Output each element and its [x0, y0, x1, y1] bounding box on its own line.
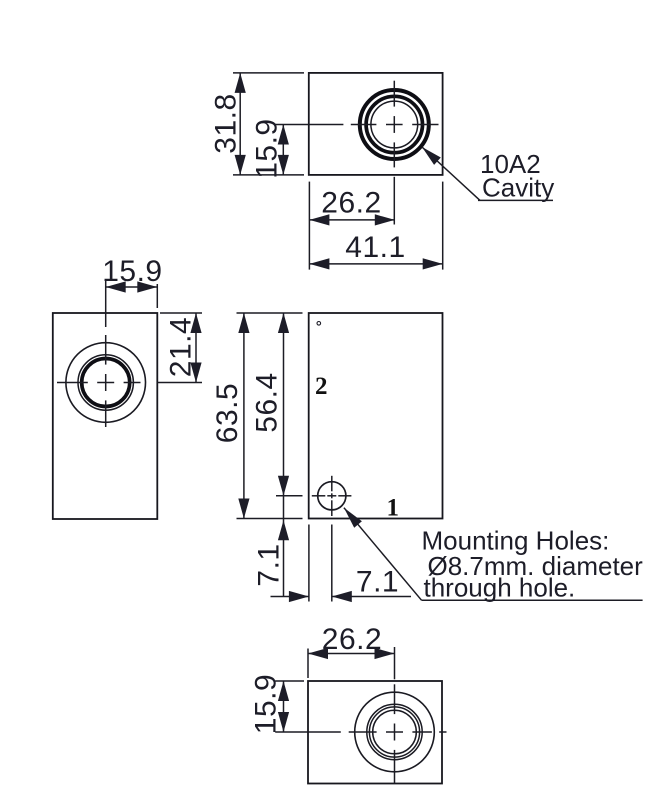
- dimension 15.9 (bottom view): [275, 681, 304, 732]
- left view vertical centerline: [105, 280, 107, 427]
- svg-text:56.4: 56.4: [250, 372, 283, 432]
- bottom view outline: [308, 681, 442, 784]
- left view chamfer thin circle: [78, 355, 133, 410]
- svg-text:2: 2: [315, 373, 328, 400]
- svg-text:7.1: 7.1: [253, 543, 286, 586]
- small orifice circle top-left: [317, 322, 321, 326]
- dimension 26.2 (bottom view): [308, 648, 395, 678]
- mounting hole circle: [318, 482, 346, 510]
- top view cavity inner thin circle: [371, 101, 418, 148]
- top view vertical centerline: [393, 81, 395, 225]
- mounting hole horizontal centerline: [312, 495, 352, 497]
- bottom view horizontal centerline: [275, 731, 446, 733]
- dimension 7.1 (bottom, edge to hole center): [271, 525, 412, 603]
- bottom view ring circle b: [369, 707, 419, 757]
- svg-text:1: 1: [387, 495, 400, 522]
- svg-text:31.8: 31.8: [210, 93, 243, 153]
- leader for mounting holes note: [344, 508, 643, 601]
- svg-text:41.1: 41.1: [345, 231, 405, 264]
- svg-text:15.9: 15.9: [250, 674, 283, 734]
- bottom view ring circle a: [367, 704, 422, 759]
- mounting hole vertical centerline: [331, 476, 333, 516]
- svg-text:63.5: 63.5: [211, 383, 244, 443]
- dimension 15.9 (top view, center to bottom): [278, 125, 289, 175]
- dimension 56.4 (top to hole center): [276, 313, 303, 496]
- dimension 41.1 (top view): [309, 182, 442, 270]
- front view outline: [309, 313, 443, 519]
- bottom view outer thin circle: [355, 692, 435, 772]
- left view outline: [53, 313, 158, 519]
- bottom view vertical centerline: [394, 647, 396, 783]
- leader for 10A2 cavity: [422, 147, 553, 200]
- svg-text:Cavity: Cavity: [482, 173, 554, 203]
- top view horizontal centerline: [275, 124, 439, 126]
- top view cavity second ring: [366, 96, 422, 152]
- top view outline: [309, 73, 443, 175]
- svg-text:26.2: 26.2: [322, 623, 382, 656]
- svg-text:15.9: 15.9: [102, 255, 162, 288]
- dimension 21.4 (left view): [160, 313, 202, 383]
- top view cavity thick outer ring: [360, 90, 429, 159]
- dimension 7.1 (left, hole to bottom): [278, 496, 289, 597]
- dimension 31.8 (top view height): [233, 73, 304, 175]
- left view horizontal centerline: [57, 382, 202, 384]
- svg-text:15.9: 15.9: [251, 118, 284, 178]
- bottom view ring circle c: [373, 710, 417, 754]
- svg-text:26.2: 26.2: [321, 187, 381, 220]
- svg-text:through hole.: through hole.: [424, 572, 576, 602]
- svg-text:21.4: 21.4: [165, 317, 198, 377]
- dimension 15.9 (left view): [106, 281, 158, 308]
- left view outer thin circle: [66, 343, 146, 423]
- svg-text:7.1: 7.1: [356, 566, 399, 599]
- left view thick bore ring: [82, 359, 130, 407]
- dimension 63.5 (front view height): [237, 313, 303, 519]
- dimension 26.2 (top view): [309, 182, 394, 270]
